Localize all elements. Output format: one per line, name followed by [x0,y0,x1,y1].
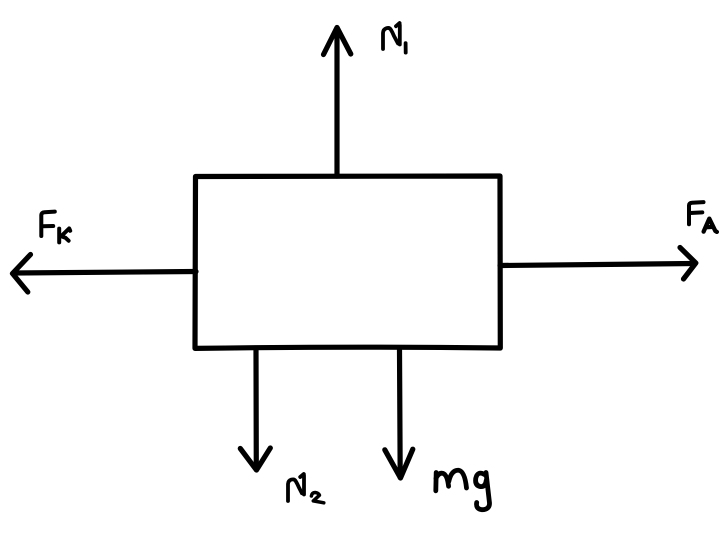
label Fk [41,212,70,243]
arrow Fk (friction, left) [13,255,197,293]
label mg [436,470,490,509]
box (block) [195,176,500,348]
arrow FA (applied force, right) [500,248,696,280]
arrow N1 (normal force up) [324,28,351,177]
label N1 [383,23,406,53]
label N2 [288,474,324,503]
arrow mg (weight, down) [385,350,413,478]
label FA [689,202,717,232]
arrow N2 (normal force down) [240,350,270,470]
